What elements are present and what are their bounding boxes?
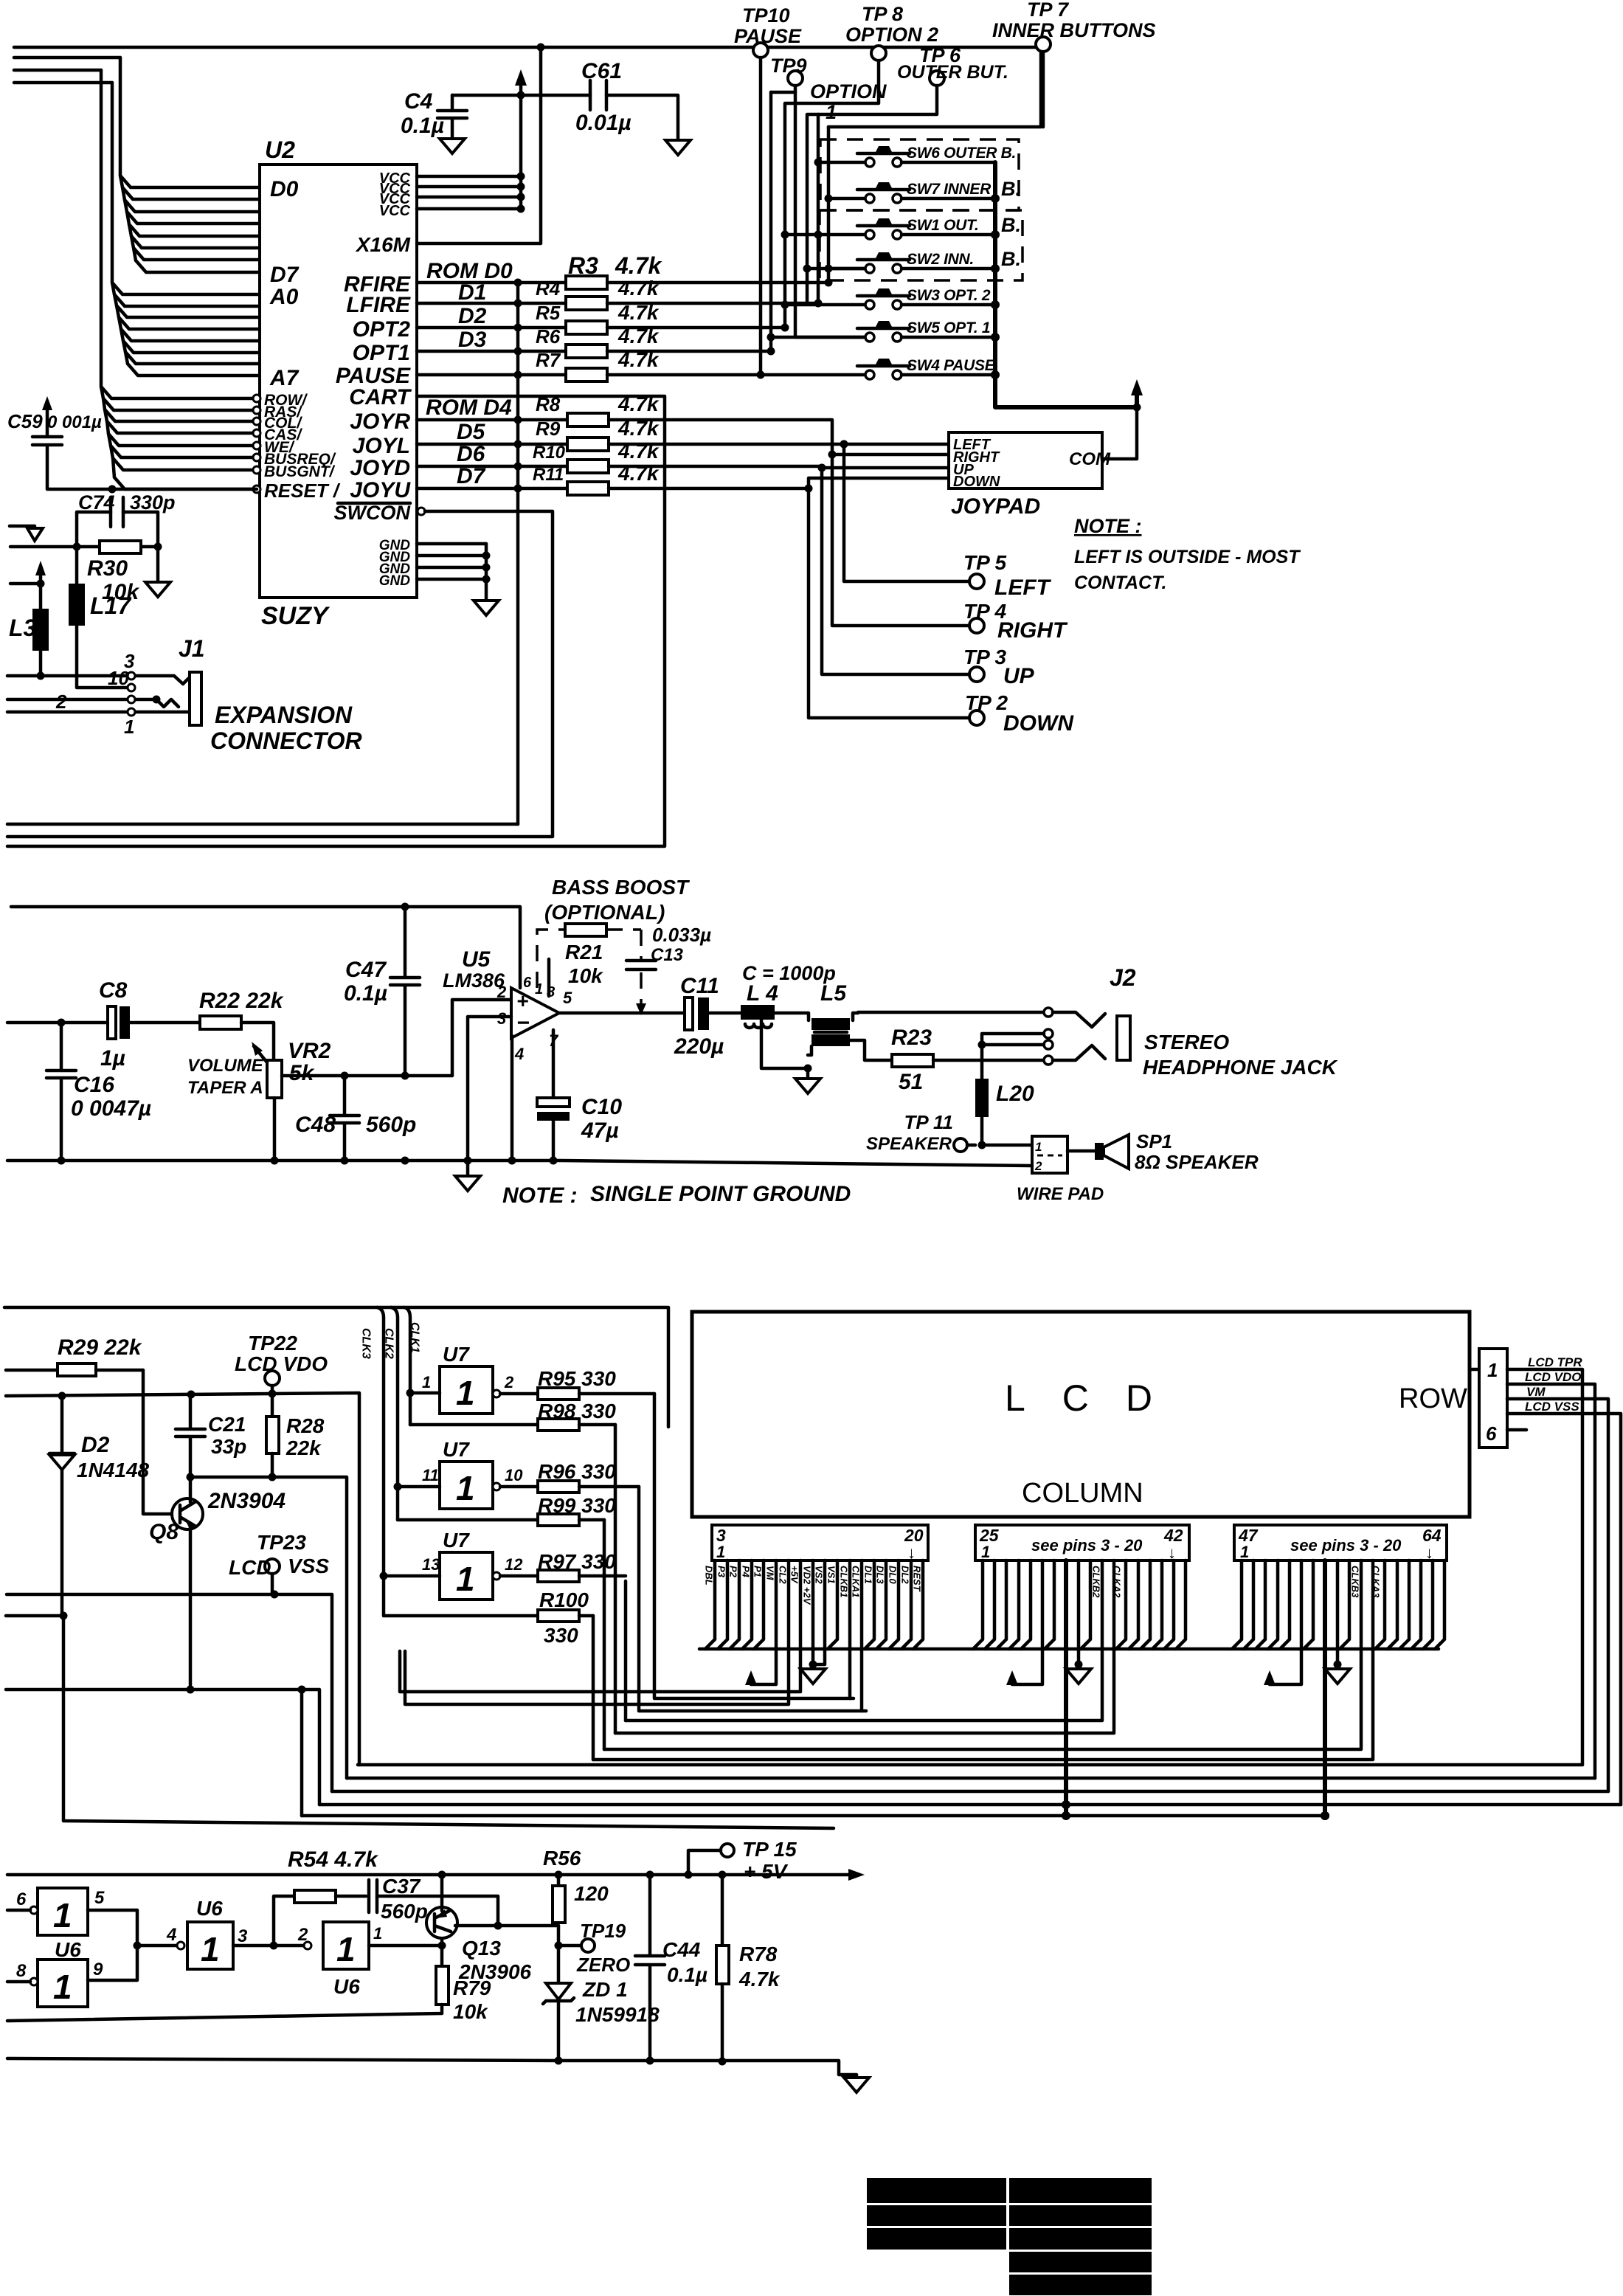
svg-text:R23: R23 (891, 1026, 932, 1050)
svg-text:CLKA1: CLKA1 (851, 1566, 862, 1597)
svg-text:NOTE :: NOTE : (502, 1183, 578, 1208)
title block row3 right (1009, 2228, 1152, 2250)
svg-text:LEFT: LEFT (994, 575, 1052, 600)
wire SW3 feed (785, 303, 864, 307)
capacitor C11 220u (685, 997, 693, 1030)
resistor R98 330 (410, 1423, 538, 1427)
wire lcd pin 19 (902, 1560, 911, 1649)
svg-text:2N3904: 2N3904 (207, 1489, 286, 1513)
svg-text:1µ: 1µ (100, 1046, 125, 1071)
pin bubble (253, 395, 260, 402)
svg-text:WIRE PAD: WIRE PAD (1017, 1184, 1104, 1204)
svg-text:6: 6 (523, 975, 532, 991)
svg-text:L 4: L 4 (747, 981, 778, 1006)
svg-text:C48: C48 (295, 1113, 336, 1137)
switch SW2 (865, 264, 874, 273)
wire TP5 stub (844, 444, 969, 581)
test point TP19 ZERO (555, 1942, 563, 1950)
svg-text:(OPTIONAL): (OPTIONAL) (544, 901, 665, 924)
wire top rail to TP7 (14, 47, 1041, 127)
resistor R100 330 (384, 1614, 538, 1618)
svg-text:LCD: LCD (229, 1556, 271, 1579)
svg-text:JOYPAD: JOYPAD (951, 494, 1040, 519)
svg-text:UP: UP (1003, 664, 1035, 688)
svg-text:4: 4 (166, 1925, 176, 1945)
svg-text:CLK2: CLK2 (383, 1328, 395, 1359)
svg-text:RIGHT: RIGHT (997, 618, 1068, 643)
wire LCD VSS line (7, 1594, 332, 1791)
resistor R11 4.7k (417, 487, 567, 491)
svg-text:TP 5: TP 5 (963, 551, 1007, 574)
svg-text:DL3: DL3 (875, 1566, 886, 1584)
svg-text:8Ω SPEAKER: 8Ω SPEAKER (1135, 1151, 1259, 1173)
test point TP7 (1036, 37, 1051, 52)
svg-text:2: 2 (504, 1373, 514, 1391)
switch SW3 (865, 300, 874, 309)
wire lcd pin 3 (705, 1560, 715, 1649)
transformer L5 (811, 1018, 850, 1030)
wire vertical ROM bus (516, 283, 520, 824)
inductor L4 (741, 1005, 775, 1020)
svg-text:R21: R21 (565, 941, 603, 964)
svg-text:1: 1 (422, 1373, 431, 1391)
svg-text:JOYD: JOYD (350, 456, 410, 480)
test point TP22 LCD VDO (265, 1371, 280, 1386)
test point TP 3 UP (969, 667, 984, 682)
buffer U6 a (38, 1888, 88, 1935)
svg-text:TP 8: TP 8 (862, 3, 903, 25)
svg-text:L5: L5 (820, 981, 847, 1006)
svg-text:1: 1 (373, 1924, 382, 1943)
wire lcd pin 14 (848, 1560, 852, 1698)
resistor R22 22k (200, 1016, 241, 1029)
buffer U7 b (440, 1462, 493, 1509)
title block row3 left (867, 2228, 1006, 2250)
resistor R79 10k (436, 1966, 449, 2005)
wire L5 to R23 (850, 1040, 892, 1060)
capacitor C37 560p (369, 1880, 377, 1912)
svg-text:A7: A7 (269, 366, 300, 390)
wire TP6 feed (807, 86, 937, 303)
svg-text:330p: 330p (130, 491, 176, 514)
wire lcd pin 47 (1232, 1560, 1242, 1649)
wire opamp output (559, 1012, 685, 1015)
test point TP9 (788, 71, 803, 86)
test point TP 4 RIGHT (969, 618, 984, 633)
capacitor C47 (390, 907, 420, 1076)
wire R97 to CLKB2 (624, 1581, 628, 1721)
svg-text:R11: R11 (533, 465, 564, 485)
wire bottom rail (7, 2058, 857, 2076)
op IC JOYPAD (949, 432, 1102, 488)
svg-text:U2: U2 (265, 136, 295, 163)
wire A4 (121, 329, 260, 341)
wire lcd pin 63 (1423, 1560, 1433, 1649)
svg-text:42: 42 (1163, 1526, 1183, 1545)
svg-text:B.: B. (1001, 248, 1021, 270)
svg-text:5: 5 (563, 989, 572, 1007)
wire to wire pad (982, 1144, 1032, 1147)
wire SWCON (418, 508, 425, 515)
svg-text:R78: R78 (739, 1943, 778, 1965)
svg-text:560p: 560p (381, 1900, 428, 1923)
svg-text:SINGLE POINT GROUND: SINGLE POINT GROUND (590, 1182, 851, 1206)
svg-text:R6: R6 (536, 325, 561, 347)
wire lcd pin 59 (1375, 1560, 1385, 1649)
wire lower line (6, 1690, 319, 1805)
svg-text:R10: R10 (533, 443, 566, 463)
svg-text:R30: R30 (87, 556, 128, 581)
svg-text:SW4 PAUSE: SW4 PAUSE (907, 357, 996, 374)
wire lcd pin 28 (1009, 1560, 1019, 1649)
zener ZD1 1N59918 (546, 1983, 571, 1999)
pin bubble (253, 442, 260, 449)
svg-text:1: 1 (201, 1930, 220, 1968)
wire lcd pin 35 (626, 1560, 1102, 1721)
resistor R56 120 (557, 1875, 561, 1886)
buffer U7 c (440, 1552, 493, 1600)
wire lcd pin 11 (811, 1560, 815, 1664)
svg-text:D2: D2 (81, 1433, 110, 1457)
connector LCD col pins 25-42 (975, 1525, 1189, 1560)
wire audio input (7, 1021, 200, 1025)
svg-text:LCD VSS: LCD VSS (1525, 1400, 1579, 1414)
connector ROW 6pin (1479, 1349, 1507, 1448)
svg-text:P2: P2 (728, 1566, 739, 1578)
svg-text:1N4148: 1N4148 (77, 1459, 150, 1481)
svg-text:R79: R79 (453, 1977, 491, 1999)
wire bus line A (14, 81, 112, 85)
wire gate D out to Q13 (369, 1938, 442, 1966)
test point TP8 (871, 46, 886, 60)
svg-text:DL1: DL1 (863, 1566, 874, 1584)
wire PAUSE net (607, 373, 864, 377)
svg-text:D7: D7 (457, 464, 486, 488)
wire lcd pin 41 (1164, 1560, 1174, 1649)
svg-text:560p: 560p (366, 1113, 416, 1137)
svg-text:47µ: 47µ (581, 1118, 619, 1143)
svg-text:B.: B. (1001, 214, 1021, 236)
svg-text:LCD: LCD (1005, 1377, 1189, 1419)
svg-text:TP19: TP19 (580, 1920, 626, 1942)
switch SW5 (865, 333, 874, 342)
svg-text:ZD 1: ZD 1 (582, 1978, 628, 2001)
svg-text:see pins 3 - 20: see pins 3 - 20 (1290, 1536, 1402, 1555)
wire ctrl5 (111, 446, 254, 457)
svg-text:1: 1 (336, 1930, 356, 1968)
wire pin6 stub (1507, 1428, 1526, 1432)
wire D bus stair (120, 58, 136, 260)
pin bubble (253, 407, 260, 414)
wire bus line ctrl (14, 69, 101, 72)
title block row1 left (867, 2178, 1006, 2203)
pin bubble (253, 485, 260, 493)
svg-text:CLK3: CLK3 (360, 1328, 373, 1359)
wire Q8 collector node (190, 1477, 347, 1778)
wire opamp minus input (468, 1017, 511, 1161)
svg-text:C13: C13 (651, 945, 684, 965)
ground stub left (10, 525, 35, 528)
svg-text:SW2 INN.: SW2 INN. (907, 251, 974, 268)
wire lcd pin 34 (1081, 1560, 1090, 1649)
svg-text:+ 5V: + 5V (744, 1860, 789, 1883)
transistor Q8 2N3904 (172, 1498, 203, 1529)
svg-text:DBL: DBL (704, 1566, 715, 1586)
resistor R97 330 (500, 1574, 538, 1578)
wire bus LCD TPR (358, 1763, 1582, 1767)
svg-text:see pins 3 - 20: see pins 3 - 20 (1031, 1536, 1143, 1555)
ground U2 (474, 601, 499, 615)
svg-text:SW6 OUTER B.: SW6 OUTER B. (907, 145, 1016, 162)
wire lcd pin 64 (1435, 1560, 1444, 1649)
svg-text:TP 2: TP 2 (965, 691, 1008, 714)
svg-text:JOYR: JOYR (350, 409, 410, 434)
buffer U6 d (323, 1922, 369, 1969)
svg-text:+: + (516, 989, 528, 1012)
pin bubble (253, 454, 260, 461)
wire D2 node line (6, 1614, 62, 1618)
wire pad (1032, 1136, 1067, 1173)
svg-text:OPTION 2: OPTION 2 (845, 24, 938, 46)
capacitor C10 47u (552, 1030, 556, 1098)
wire JOYR net (609, 420, 969, 626)
wire bus VM (332, 1790, 1608, 1794)
svg-text:1: 1 (53, 1896, 72, 1934)
wire lcd pin 4 (718, 1560, 727, 1649)
svg-text:2: 2 (297, 1925, 308, 1945)
switch SW4 (865, 370, 874, 379)
svg-text:HEADPHONE JACK: HEADPHONE JACK (1143, 1056, 1338, 1079)
wire COM (1102, 407, 1137, 459)
capacitor C8 (108, 1006, 116, 1039)
wire lcd pin 61 (1399, 1560, 1409, 1649)
svg-text:9: 9 (93, 1960, 103, 1979)
wire lcd pin 50 (1268, 1560, 1278, 1649)
wire lcd pin 37 (1116, 1560, 1126, 1649)
wire feedback up (274, 1896, 294, 1946)
wire lcd pin 5 (730, 1560, 739, 1649)
svg-text:13: 13 (422, 1555, 440, 1574)
wire CLK2 (391, 1307, 398, 1520)
svg-text:U5: U5 (462, 947, 491, 972)
wire ctrl bus stair (101, 70, 114, 477)
op LCD module box (692, 1312, 1470, 1517)
capacitor C16 (58, 1019, 66, 1027)
title block row2 left (867, 2205, 1006, 2226)
svg-text:SUZY: SUZY (261, 602, 331, 630)
svg-text:LCD VDO: LCD VDO (1525, 1370, 1582, 1384)
wire lcd pin 53 (1304, 1560, 1313, 1649)
wire lcd pin 40 (1152, 1560, 1162, 1649)
svg-text:Q8: Q8 (149, 1520, 179, 1544)
svg-text:VR2: VR2 (288, 1039, 331, 1063)
svg-text:2: 2 (55, 691, 67, 713)
svg-text:TP9: TP9 (770, 55, 807, 77)
wire lcd pin 52 (1270, 1560, 1301, 1684)
svg-text:R3: R3 (568, 252, 598, 279)
svg-text:CART: CART (349, 385, 412, 409)
wire lcd pin 56 (1340, 1560, 1349, 1649)
wire reset RC (10, 512, 158, 581)
wire A1 (114, 294, 260, 306)
ground bottom (844, 2078, 869, 2092)
svg-text:L20: L20 (996, 1082, 1034, 1106)
wire ctrl7 (114, 477, 254, 489)
wire lcd pin 42 (1176, 1560, 1186, 1649)
resistor R23 51 (892, 1054, 933, 1067)
svg-text:10k: 10k (453, 2000, 488, 2023)
wire lcd pin 10 (400, 1560, 800, 1692)
svg-text:CLKA2: CLKA2 (1112, 1566, 1123, 1598)
svg-text:VCC: VCC (379, 203, 411, 219)
test point TP23 LCD VSS (265, 1559, 280, 1574)
wire CART (7, 396, 665, 846)
wire ROM bus to left (7, 823, 518, 826)
wire lcd pin 20 (913, 1560, 923, 1649)
svg-text:X16M: X16M (355, 233, 411, 256)
svg-text:4: 4 (514, 1045, 524, 1063)
svg-text:U6: U6 (333, 1975, 360, 1998)
svg-text:VSS: VSS (288, 1555, 329, 1577)
svg-text:33p: 33p (211, 1435, 246, 1458)
wire D6 (134, 248, 260, 260)
svg-text:TP 15: TP 15 (742, 1838, 797, 1861)
wire lcd pin 13 (828, 1560, 837, 1649)
svg-text:1: 1 (53, 1968, 72, 2006)
wire lcd pin 49 (1256, 1560, 1265, 1649)
svg-text:DOWN: DOWN (1003, 711, 1074, 736)
wire switch common bus (995, 162, 1137, 407)
wire TP7 stub (1042, 52, 1045, 127)
svg-text:TAPER A: TAPER A (187, 1078, 263, 1098)
pin bubble (253, 466, 260, 474)
wire ctrl6 (113, 458, 254, 470)
transistor Q13 2N3906 (426, 1907, 457, 1938)
svg-text:2: 2 (1034, 1159, 1042, 1173)
wire bus line D (14, 56, 120, 60)
svg-text:CONTACT.: CONTACT. (1074, 573, 1166, 593)
wire bus LCD VSS (319, 1803, 1621, 1807)
wire U7c input (384, 1574, 440, 1578)
svg-text:Q13: Q13 (462, 1937, 501, 1960)
connector LCD col pins 3-20 (712, 1525, 928, 1560)
svg-text:J2: J2 (1110, 964, 1136, 991)
svg-text:SW5 OPT. 1: SW5 OPT. 1 (907, 319, 990, 336)
svg-text:INNER BUTTONS: INNER BUTTONS (992, 19, 1156, 41)
wire bus LCD VDO (347, 1777, 1595, 1780)
svg-text:0.033µ: 0.033µ (652, 924, 711, 946)
wire TP8 feed (785, 60, 879, 328)
svg-text:P1: P1 (752, 1566, 764, 1577)
svg-text:LFIRE: LFIRE (346, 293, 411, 317)
resistor R9 4.7k (417, 443, 567, 446)
buffer U6 b (38, 1960, 88, 2007)
svg-text:ROM D4: ROM D4 (426, 395, 512, 420)
svg-text:ROW: ROW (1399, 1383, 1467, 1414)
resistor R4 4.7k (417, 302, 566, 305)
svg-text:0.1µ: 0.1µ (344, 981, 387, 1006)
wire SW6 feed (818, 114, 864, 303)
wire ctrl2 (105, 409, 254, 421)
wire OPT2 net (607, 326, 785, 330)
dashed bass boost net (537, 930, 565, 988)
buffer U7 a (440, 1366, 493, 1414)
wire A6 (125, 352, 260, 364)
svg-text:U6: U6 (55, 1938, 81, 1961)
svg-text:1: 1 (1035, 1140, 1042, 1154)
svg-text:5k: 5k (289, 1061, 315, 1085)
svg-text:VS2: VS2 (814, 1566, 825, 1584)
speaker SP1 (1067, 1149, 1095, 1153)
wire LCD to ROW stub (1470, 1368, 1479, 1372)
svg-text:C47: C47 (345, 958, 387, 982)
wire CLK1 (404, 1307, 410, 1425)
svg-text:R9: R9 (536, 418, 561, 440)
svg-text:C11: C11 (680, 974, 719, 998)
wire RIGHT pin (832, 453, 949, 457)
svg-text:VM: VM (1526, 1385, 1546, 1399)
svg-text:1: 1 (1487, 1359, 1498, 1381)
svg-text:L17: L17 (90, 592, 132, 619)
wire single point ground rail (7, 1161, 1032, 1166)
op IC U2 SUZY body (260, 165, 417, 598)
svg-text:1: 1 (1240, 1543, 1249, 1561)
svg-text:VOLUME: VOLUME (187, 1056, 264, 1076)
svg-text:D5: D5 (457, 420, 486, 444)
wire LCD VDO rail (6, 1393, 359, 1765)
wire D5 (131, 236, 260, 248)
svg-text:1: 1 (716, 1543, 725, 1561)
wire SW1 feed (785, 233, 864, 237)
wire JOYU net (609, 487, 809, 491)
wire pin8 stub (547, 959, 551, 996)
svg-text:LM386: LM386 (443, 969, 505, 992)
svg-text:OPT1: OPT1 (353, 341, 410, 365)
wire lcd pin 8 (751, 1560, 776, 1684)
svg-text:1: 1 (456, 1469, 475, 1507)
svg-text:D1: D1 (458, 280, 486, 305)
svg-text:2: 2 (496, 983, 507, 1001)
svg-text:SW7 INNER: SW7 INNER (907, 181, 992, 198)
svg-text:OUTER BUT.: OUTER BUT. (897, 62, 1008, 83)
wire lcd pin 26 (985, 1560, 994, 1649)
resistor R21 10k (565, 924, 606, 936)
svg-text:BASS BOOST: BASS BOOST (552, 876, 691, 899)
title block row1 right (1009, 2178, 1152, 2203)
wire lcd pin 60 (1388, 1560, 1397, 1649)
test point TP10 (753, 43, 768, 58)
wire lcd pin 31 (1045, 1560, 1054, 1649)
wire R95 to CLKB1 (654, 1394, 854, 1698)
svg-text:REST: REST (912, 1566, 923, 1592)
wire D7 (136, 260, 260, 272)
svg-text:1: 1 (981, 1543, 990, 1561)
title block row2 right (1009, 2205, 1152, 2226)
connector LCD col pins 47-64 (1234, 1525, 1447, 1560)
svg-text:CLKB2: CLKB2 (1091, 1566, 1102, 1598)
resistor R99 330 (398, 1518, 538, 1522)
svg-text:51: 51 (899, 1070, 923, 1094)
wire R100 to CLKA3 (592, 1616, 595, 1760)
wire lcd pin 29 (1021, 1560, 1031, 1649)
wire RFIRE net (607, 281, 828, 285)
wire lcd pin 16 (865, 1560, 874, 1649)
wire LCD section top rail (4, 1307, 668, 1427)
resistor R10 4.7k (417, 465, 567, 468)
test point TP11 (954, 1138, 967, 1152)
svg-text:LCD VDO: LCD VDO (235, 1352, 328, 1375)
wire gate outputs join (88, 1910, 176, 1980)
